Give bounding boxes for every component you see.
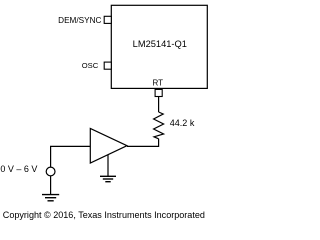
resistor R1 — [154, 112, 164, 139]
pin OSC box — [104, 62, 111, 69]
svg-text:LM25141-Q1: LM25141-Q1 — [133, 39, 187, 49]
wire op-amp input from voltage source — [51, 146, 91, 167]
svg-text:OSC: OSC — [82, 61, 99, 70]
svg-text:DEM/SYNC: DEM/SYNC — [58, 16, 101, 25]
ground (below op-amp) — [100, 176, 116, 181]
ground (below voltage source) — [42, 195, 59, 201]
pin DEM/SYNC box — [104, 16, 111, 23]
svg-text:Copyright © 2016, Texas Instru: Copyright © 2016, Texas Instruments Inco… — [3, 210, 205, 220]
wire resistor bottom to op-amp output — [127, 139, 159, 147]
pin RT box — [155, 89, 162, 96]
IC U1 LM25141-Q1 body — [111, 5, 207, 88]
op-amp buffer U2 — [90, 128, 127, 163]
svg-text:RT: RT — [153, 79, 164, 88]
svg-text:0 V – 6 V: 0 V – 6 V — [0, 164, 37, 174]
svg-text:44.2 k: 44.2 k — [170, 118, 195, 128]
voltage source V1 — [46, 167, 55, 176]
wire op-amp to ground — [107, 155, 109, 177]
wire RT pin to resistor top — [158, 97, 160, 113]
wire voltage source to ground — [50, 176, 52, 195]
